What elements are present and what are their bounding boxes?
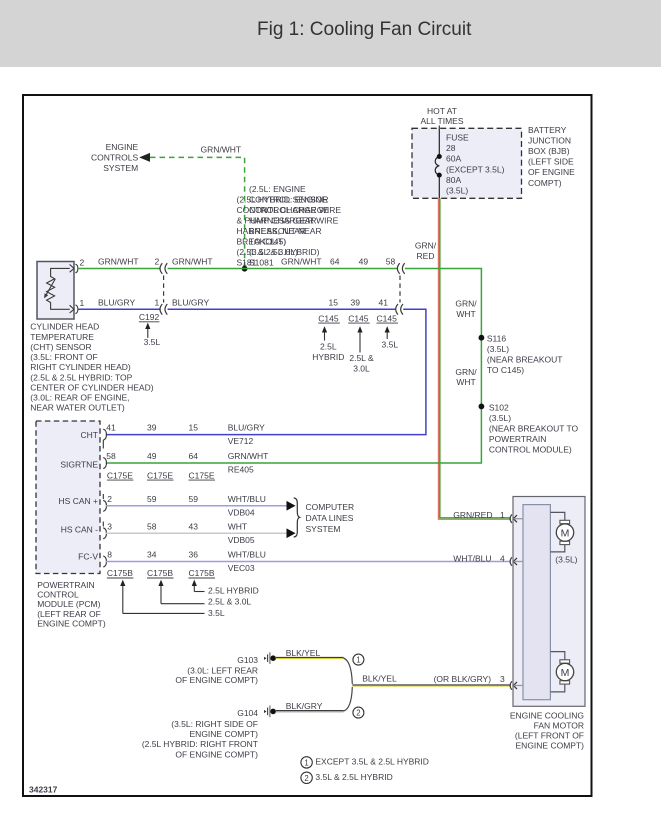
legend circled 2 [301, 772, 312, 783]
ground G103 [264, 652, 276, 664]
arrowhead to engine controls system [139, 153, 150, 162]
svg-text:M: M [561, 667, 570, 679]
wire WHT/BLU VEC03 (FC-V to fan pin 4) [106, 561, 511, 563]
svg-text:(2.5L HYBRID: RIGHT FRONT: (2.5L HYBRID: RIGHT FRONT [142, 739, 258, 749]
svg-text:CONTROL MODULE): CONTROL MODULE) [489, 445, 572, 455]
arrow C175B 2.5L hybrid [193, 584, 195, 592]
svg-text:C145: C145 [377, 313, 398, 323]
svg-text:FC-V: FC-V [78, 552, 98, 562]
arrow C175B 2.5L and 3.0L [160, 584, 162, 604]
svg-text:HARNESS, NEAR: HARNESS, NEAR [237, 226, 306, 236]
PCM pin bracket HS CAN - [103, 522, 106, 539]
label 2.5L and 3.0L [349, 353, 374, 373]
svg-text:1: 1 [356, 656, 360, 665]
svg-text:EXCEPT 3.5L & 2.5L HYBRID: EXCEPT 3.5L & 2.5L HYBRID [315, 757, 429, 767]
svg-text:BLK/YEL: BLK/YEL [362, 673, 397, 683]
svg-text:2: 2 [356, 709, 360, 718]
wire dashed GRN/WHT to engine controls [150, 157, 245, 266]
svg-text:C145: C145 [318, 313, 339, 323]
label S102 [489, 403, 579, 455]
engine cooling fan motor label [510, 711, 584, 751]
battery junction box (dashed) [412, 128, 522, 198]
svg-text:CENTER OF CYLINDER HEAD): CENTER OF CYLINDER HEAD) [30, 383, 153, 393]
svg-text:S102: S102 [489, 403, 509, 413]
svg-text:RED: RED [417, 251, 435, 261]
fan motor M1 caps [560, 520, 570, 523]
svg-text:2: 2 [107, 494, 112, 504]
svg-text:POWERTRAIN: POWERTRAIN [37, 580, 94, 590]
svg-text:59: 59 [147, 494, 157, 504]
svg-text:CONTROL: CONTROL [37, 590, 79, 600]
svg-text:CHT: CHT [81, 430, 98, 440]
svg-text:(3.5L: RIGHT SIDE OF: (3.5L: RIGHT SIDE OF [171, 719, 258, 729]
wire GRN/WHT top (sensor pin2 to S181 to C145 to right corner down) [78, 269, 481, 464]
svg-text:SYSTEM: SYSTEM [306, 524, 341, 534]
PCM pin bracket SIGRTNE [103, 458, 106, 469]
label GRN/RED (vertical wire) [415, 241, 437, 262]
svg-text:VE712: VE712 [228, 436, 254, 446]
svg-text:2.5L: 2.5L [320, 341, 337, 351]
svg-text:64: 64 [330, 257, 340, 267]
fan pin 4 entry connector [510, 557, 523, 566]
svg-text:2.5L HYBRID: 2.5L HYBRID [208, 586, 259, 596]
svg-text:39: 39 [147, 422, 157, 432]
svg-text:1: 1 [304, 758, 308, 767]
svg-text:4: 4 [500, 553, 505, 563]
svg-text:C192: C192 [139, 312, 160, 322]
powertrain control module label [37, 580, 106, 629]
svg-text:SYSTEM: SYSTEM [103, 163, 138, 173]
svg-text:GRN/WHT: GRN/WHT [201, 144, 242, 154]
svg-text:& PUMP CHARGER WIRE: & PUMP CHARGER WIRE [237, 216, 339, 226]
svg-text:M: M [561, 527, 570, 539]
svg-text:BLU/GRY: BLU/GRY [98, 297, 135, 307]
svg-text:G104: G104 [237, 708, 258, 718]
wire BLU/GRY (sensor pin1 to C192 to C145 down to PCM CHT) [78, 309, 426, 434]
wire merge curve from G103 [344, 658, 353, 684]
svg-text:C175B: C175B [189, 568, 215, 578]
svg-text:(3.5L): (3.5L) [555, 555, 577, 565]
fan motor M1 wiring [550, 512, 564, 552]
svg-text:(2.5L HYBRID: ENGINE: (2.5L HYBRID: ENGINE [237, 195, 328, 205]
svg-text:(2.5L & 2.5L HYBRID): (2.5L & 2.5L HYBRID) [237, 247, 320, 257]
svg-text:C175B: C175B [147, 568, 173, 578]
fan pin 3 entry connector [510, 681, 523, 690]
arrow C145 (3.5L) [386, 330, 388, 340]
svg-text:2: 2 [304, 774, 308, 783]
svg-text:58: 58 [386, 257, 396, 267]
cylinder head temperature sensor label [30, 322, 153, 413]
svg-text:2: 2 [155, 257, 160, 267]
svg-text:(3.5L: FRONT OF: (3.5L: FRONT OF [30, 352, 97, 362]
svg-text:WHT/BLU: WHT/BLU [228, 494, 266, 504]
svg-text:ENGINE COMPT): ENGINE COMPT) [516, 741, 585, 751]
node S181 splice dot [242, 266, 248, 272]
svg-text:(2.5L & 2.5L HYBRID: TOP: (2.5L & 2.5L HYBRID: TOP [30, 372, 132, 382]
svg-text:HYBRID: HYBRID [312, 352, 344, 362]
svg-text:POWERTRAIN: POWERTRAIN [489, 434, 546, 444]
svg-text:1: 1 [80, 298, 85, 308]
PCM pin bracket CHT [103, 429, 106, 448]
svg-text:C175E: C175E [107, 470, 133, 480]
cylinder head temperature sensor box [37, 262, 74, 320]
svg-text:43: 43 [189, 521, 199, 531]
wire WHT VDB05 (HS CAN -) [106, 532, 287, 534]
label GRN/WHT (right vertical wire upper) [455, 299, 477, 320]
svg-text:3: 3 [107, 521, 112, 531]
svg-text:TO C145): TO C145) [487, 365, 524, 375]
arrow C175B 3.5L [122, 584, 124, 614]
connector C145 symbol (inline) [396, 263, 405, 314]
wire from HOT AT to fuse box [438, 126, 440, 130]
sensor pin 2 connector [70, 264, 78, 273]
diagram border frame [23, 95, 592, 796]
engine cooling fan motor box [513, 497, 585, 707]
svg-text:2: 2 [80, 257, 85, 267]
svg-text:(2.5L: ENGINE: (2.5L: ENGINE [249, 184, 306, 194]
svg-text:BLU/GRY: BLU/GRY [228, 422, 265, 432]
svg-text:80A: 80A [446, 175, 461, 185]
svg-text:(3.5L): (3.5L) [487, 344, 509, 354]
svg-text:JUNCTION: JUNCTION [528, 135, 571, 145]
svg-text:58: 58 [147, 521, 157, 531]
svg-text:BREAKOUT): BREAKOUT) [237, 237, 287, 247]
arrow C192 [147, 326, 149, 338]
svg-text:WHT/BLU: WHT/BLU [453, 553, 491, 563]
arrow C145 (2.5L hybrid) [324, 330, 326, 341]
svg-text:C175E: C175E [147, 470, 173, 480]
svg-text:60A: 60A [446, 154, 461, 164]
svg-text:(NEAR BREAKOUT TO: (NEAR BREAKOUT TO [489, 424, 579, 434]
label 2.5L HYBRID [312, 341, 344, 361]
wire GRN/RED from fuse down and right to fan motor pin 1 [438, 198, 511, 519]
wire BLK/GRY from G104 [276, 710, 344, 712]
svg-text:15: 15 [189, 422, 199, 432]
svg-text:COMPUTER: COMPUTER [306, 502, 355, 512]
svg-text:1: 1 [155, 297, 160, 307]
svg-text:HS CAN +: HS CAN + [59, 496, 98, 506]
svg-text:49: 49 [359, 257, 369, 267]
svg-text:S181: S181 [237, 257, 257, 267]
svg-text:ENGINE COMPT): ENGINE COMPT) [190, 729, 259, 739]
svg-text:MODULE (PCM): MODULE (PCM) [37, 599, 100, 609]
svg-text:GRN/WHT: GRN/WHT [228, 451, 269, 461]
PCM pin bracket HS CAN + [103, 494, 106, 511]
svg-text:GRN/: GRN/ [455, 367, 477, 377]
powertrain control module box (dashed) [36, 421, 100, 574]
svg-text:RE405: RE405 [228, 465, 254, 475]
svg-text:BATTERY: BATTERY [528, 125, 567, 135]
svg-text:BLK/GRY: BLK/GRY [286, 701, 323, 711]
curly brace computer data lines [294, 498, 300, 537]
svg-text:59: 59 [189, 494, 199, 504]
svg-text:OF ENGINE COMPT): OF ENGINE COMPT) [175, 749, 258, 759]
svg-text:3: 3 [500, 674, 505, 684]
fan motor M2 [556, 663, 573, 680]
svg-text:28: 28 [446, 143, 456, 153]
svg-text:BLU/GRY: BLU/GRY [172, 297, 209, 307]
label COMPUTER DATA LINES SYSTEM [306, 502, 355, 534]
svg-text:(CHT) SENSOR: (CHT) SENSOR [30, 342, 91, 352]
svg-text:CONTROLS: CONTROLS [91, 152, 139, 162]
svg-text:FAN MOTOR: FAN MOTOR [534, 721, 584, 731]
fuse 28 symbol [435, 128, 439, 198]
svg-text:(3.5L): (3.5L) [489, 413, 511, 423]
circled 2 at merge [353, 707, 364, 718]
svg-text:CONTROL CHARGE WIRE: CONTROL CHARGE WIRE [237, 205, 342, 215]
svg-text:GRN/WHT: GRN/WHT [172, 257, 213, 267]
svg-text:(LEFT FRONT OF: (LEFT FRONT OF [515, 731, 584, 741]
connector C192 symbol [160, 263, 167, 314]
svg-text:C175B: C175B [107, 568, 133, 578]
svg-text:WHT: WHT [456, 377, 475, 387]
svg-text:VDB04: VDB04 [228, 507, 255, 517]
svg-text:3.5L: 3.5L [208, 608, 225, 618]
svg-text:VDB05: VDB05 [228, 535, 255, 545]
PCM pin bracket FC-V [103, 556, 106, 567]
wire WHT/BLU VDB04 (HS CAN +) [106, 505, 287, 507]
fan pin 1 entry connector [510, 514, 523, 523]
legend circled 1 [301, 757, 312, 768]
thermistor symbol [45, 268, 70, 309]
svg-text:(OR BLK/GRY): (OR BLK/GRY) [434, 674, 492, 684]
splice label overlap block B [237, 195, 342, 268]
svg-text:ENGINE COMPT): ENGINE COMPT) [37, 619, 106, 629]
svg-text:FUSE: FUSE [446, 133, 469, 143]
fan motor M2 wiring [550, 652, 564, 692]
svg-text:39: 39 [351, 297, 361, 307]
svg-text:2.5L & 3.0L: 2.5L & 3.0L [208, 597, 251, 607]
svg-text:342317: 342317 [29, 785, 58, 795]
svg-text:(3.0L: LEFT REAR: (3.0L: LEFT REAR [187, 665, 258, 675]
svg-text:41: 41 [106, 422, 116, 432]
svg-text:GRN/WHT: GRN/WHT [281, 257, 322, 267]
svg-text:3.5L: 3.5L [144, 337, 161, 347]
svg-text:RIGHT CYLINDER HEAD): RIGHT CYLINDER HEAD) [30, 362, 131, 372]
fan motor M1 [556, 524, 573, 541]
svg-text:3.5L: 3.5L [382, 340, 399, 350]
svg-text:(LEFT SIDE: (LEFT SIDE [528, 157, 574, 167]
node S102 splice dot [479, 404, 485, 410]
svg-text:8: 8 [107, 550, 112, 560]
svg-text:41: 41 [379, 297, 389, 307]
svg-text:GRN/: GRN/ [455, 299, 477, 309]
svg-text:(NEAR BREAKOUT: (NEAR BREAKOUT [487, 355, 563, 365]
splice label overlap block A [249, 184, 329, 267]
svg-text:3.0L: 3.0L [353, 363, 370, 373]
svg-text:CYLINDER HEAD: CYLINDER HEAD [30, 322, 99, 332]
label S116 [487, 334, 563, 376]
fan motor M2 caps [560, 660, 570, 663]
wire BLK/YEL from G103 [276, 656, 344, 658]
svg-text:TEMPERATURE: TEMPERATURE [30, 332, 94, 342]
fuse value labels [446, 133, 505, 196]
svg-text:WHT: WHT [456, 309, 475, 319]
svg-text:WHT: WHT [228, 521, 247, 531]
svg-text:15: 15 [329, 297, 339, 307]
node HOT AT ALL TIMES [421, 106, 464, 126]
svg-text:BOX (BJB): BOX (BJB) [528, 146, 570, 156]
node S116 splice dot [479, 335, 485, 341]
svg-text:(3.0L: REAR OF ENGINE,: (3.0L: REAR OF ENGINE, [30, 393, 129, 403]
svg-text:1: 1 [500, 510, 505, 520]
svg-text:HOT AT: HOT AT [427, 106, 457, 116]
circled 1 at merge [353, 654, 364, 665]
svg-text:ALL TIMES: ALL TIMES [421, 116, 464, 126]
thermistor arrowhead [44, 293, 48, 298]
svg-text:GRN/: GRN/ [415, 241, 437, 251]
svg-text:COMPT): COMPT) [528, 178, 562, 188]
svg-text:VEC03: VEC03 [228, 563, 255, 573]
svg-text:DATA LINES: DATA LINES [306, 513, 354, 523]
ground G104 [264, 706, 276, 718]
svg-text:HS CAN -: HS CAN - [61, 524, 98, 534]
label GRN/WHT (right vertical wire lower) [455, 367, 477, 387]
svg-text:OF ENGINE: OF ENGINE [528, 167, 575, 177]
sensor pin 1 connector [70, 305, 78, 314]
svg-text:GRN/WHT: GRN/WHT [98, 257, 139, 267]
svg-text:ENGINE COOLING: ENGINE COOLING [510, 711, 584, 721]
svg-text:58: 58 [106, 451, 116, 461]
svg-text:G103: G103 [237, 655, 258, 665]
svg-text:(3.5L): (3.5L) [446, 186, 468, 196]
svg-text:SIGRTNE: SIGRTNE [60, 459, 98, 469]
svg-text:(EXCEPT 3.5L): (EXCEPT 3.5L) [446, 164, 505, 174]
wire merge curve from G104 [344, 687, 353, 711]
svg-text:64: 64 [189, 451, 199, 461]
header band [0, 0, 661, 67]
svg-text:S116: S116 [487, 334, 506, 344]
svg-text:(LEFT REAR OF: (LEFT REAR OF [37, 609, 101, 619]
arrowhead computer data lines (HS CAN -) [287, 528, 296, 538]
arrow C145 (2.5L and 3.0L) [359, 330, 361, 353]
svg-text:3.5L & 2.5L HYBRID: 3.5L & 2.5L HYBRID [315, 772, 392, 782]
svg-text:2.5L &: 2.5L & [349, 353, 374, 363]
svg-text:34: 34 [147, 550, 157, 560]
svg-text:BLK/YEL: BLK/YEL [286, 648, 321, 658]
battery junction box label [528, 125, 575, 188]
svg-text:49: 49 [147, 451, 157, 461]
svg-text:C175E: C175E [189, 470, 215, 480]
arrowhead computer data lines (HS CAN +) [287, 501, 296, 511]
wire BLK/YEL combined to fan pin 3 [352, 684, 511, 686]
svg-text:NEAR WATER OUTLET): NEAR WATER OUTLET) [30, 403, 125, 413]
svg-text:OF ENGINE COMPT): OF ENGINE COMPT) [175, 675, 258, 685]
fan motor inner block [523, 505, 550, 700]
svg-text:36: 36 [189, 550, 199, 560]
node ENGINE CONTROLS SYSTEM [91, 142, 139, 173]
svg-text:ENGINE: ENGINE [106, 142, 139, 152]
svg-text:C145: C145 [348, 313, 369, 323]
svg-text:WHT/BLU: WHT/BLU [228, 550, 266, 560]
svg-text:GRN/RED: GRN/RED [453, 510, 492, 520]
